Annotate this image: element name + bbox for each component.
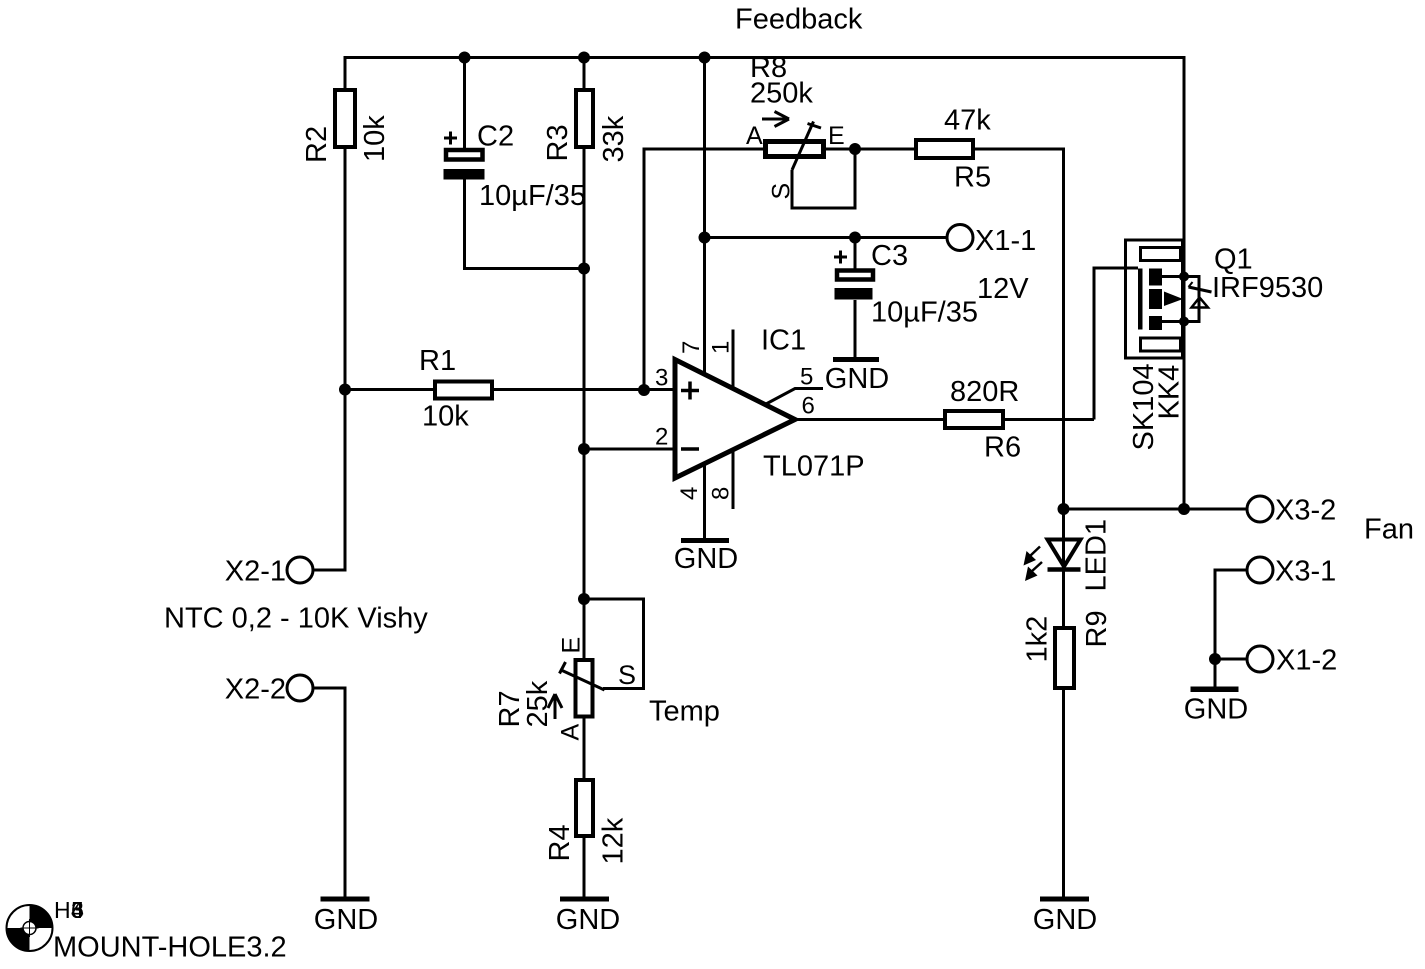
svg-text:R3: R3 — [542, 124, 574, 161]
wire R3 top — [583, 58, 586, 91]
resistor R5 — [916, 140, 973, 158]
connector X1-2 — [1247, 646, 1273, 672]
wire Q1 body diode branch — [1184, 277, 1199, 322]
junction LED rail / fan wire — [1058, 503, 1070, 515]
svg-text:E: E — [828, 122, 845, 150]
junction top rail / C2 — [459, 52, 471, 64]
junction 12V rail left — [699, 232, 711, 244]
junction Q1 drain — [1179, 272, 1189, 282]
potentiometer R8 — [766, 122, 824, 171]
svg-text:X2-1: X2-1 — [225, 556, 286, 588]
svg-text:R9: R9 — [1081, 610, 1113, 647]
svg-text:MOUNT-HOLE3.2: MOUNT-HOLE3.2 — [53, 932, 287, 964]
label H3 H4 H5 H6 overlapped — [54, 897, 84, 923]
ground under C3 — [825, 357, 889, 395]
svg-text:GND: GND — [825, 363, 889, 395]
ground under X2-2 — [314, 897, 378, 937]
wire X3-1 down to GND — [1215, 570, 1247, 687]
svg-text:TL071P: TL071P — [763, 451, 865, 483]
svg-text:2: 2 — [655, 424, 668, 451]
wire Q1 source — [1162, 320, 1184, 323]
connector X1-1 — [947, 225, 973, 251]
wire R9 to GND — [1062, 690, 1065, 897]
svg-text:LED1: LED1 — [1081, 519, 1113, 592]
junction R7 wiper node — [578, 593, 590, 605]
svg-text:X2-2: X2-2 — [225, 674, 286, 706]
junction right rail / fan wire — [1178, 503, 1190, 515]
wire C3 top — [854, 238, 857, 270]
svg-text:X3-2: X3-2 — [1275, 495, 1336, 527]
svg-text:6: 6 — [802, 393, 815, 420]
junction top rail / R3 — [578, 52, 590, 64]
svg-text:33k: 33k — [598, 115, 630, 162]
svg-text:3: 3 — [655, 365, 668, 392]
svg-text:Feedback: Feedback — [735, 4, 863, 36]
ground under R4 — [556, 897, 620, 937]
svg-text:GND: GND — [1184, 694, 1248, 726]
svg-text:C2: C2 — [477, 121, 514, 153]
resistor R4 — [576, 780, 593, 836]
resistor R3 — [576, 90, 593, 147]
svg-text:250k: 250k — [750, 78, 813, 110]
svg-text:R4: R4 — [544, 824, 576, 861]
svg-text:X1-2: X1-2 — [1276, 645, 1337, 677]
svg-text:R1: R1 — [419, 345, 456, 377]
svg-text:S: S — [618, 660, 636, 690]
connector X3-2 — [1247, 496, 1273, 522]
svg-text:6: 6 — [71, 897, 84, 923]
wire C2 bottom to R3 net — [465, 178, 585, 269]
svg-text:R2: R2 — [301, 126, 333, 163]
arrow R7 — [548, 694, 562, 719]
svg-text:R5: R5 — [954, 162, 991, 194]
wire R8 E to R5 — [826, 148, 914, 151]
svg-text:4: 4 — [676, 487, 703, 500]
wire X2-2 to GND — [313, 688, 345, 897]
wire R7 wiper S loop — [584, 599, 644, 689]
wire up to Q1 gate — [1094, 268, 1138, 420]
svg-text:GND: GND — [674, 543, 738, 575]
connector X2-1 — [287, 557, 313, 583]
svg-text:GND: GND — [314, 904, 378, 936]
wire op-amp output to R6 — [795, 418, 945, 421]
resistor R9 — [1055, 628, 1074, 688]
junction top rail / pin7 rail — [699, 52, 711, 64]
svg-text:Temp: Temp — [649, 696, 720, 728]
wire fan rail to X3-2 — [1064, 508, 1248, 511]
resistor R6 — [945, 411, 1003, 428]
capacitor C3 — [834, 251, 873, 300]
svg-text:12k: 12k — [598, 817, 630, 864]
ground under X1-2 node — [1184, 687, 1248, 726]
wire pin3 node up to R8 terminal A — [644, 149, 763, 390]
svg-text:10µF/35: 10µF/35 — [871, 297, 978, 329]
svg-text:GND: GND — [556, 904, 620, 936]
wire R4 to GND — [583, 838, 586, 897]
svg-text:S: S — [768, 183, 796, 200]
connector X3-1 — [1247, 557, 1273, 583]
wire node to X1-2 — [1215, 658, 1247, 661]
svg-text:820R: 820R — [950, 376, 1019, 408]
junction C2 / R3 node — [578, 263, 590, 275]
Q1 body diode — [1189, 282, 1212, 308]
wire R1 to op-amp pin 3 — [494, 388, 675, 391]
svg-text:IRF9530: IRF9530 — [1212, 272, 1323, 304]
resistor R1 — [435, 382, 492, 399]
svg-text:10k: 10k — [422, 401, 469, 433]
svg-text:X3-1: X3-1 — [1275, 556, 1336, 588]
svg-text:H: H — [54, 897, 71, 923]
svg-text:A: A — [746, 122, 763, 150]
LED LED1 — [1024, 540, 1081, 582]
connector X2-2 — [287, 675, 313, 701]
svg-text:IC1: IC1 — [761, 325, 806, 357]
ground under R9 — [1033, 897, 1097, 937]
resistor R2 — [335, 90, 355, 147]
junction pin3 node — [638, 384, 650, 396]
wire Q1 drain — [1162, 275, 1184, 278]
svg-text:47k: 47k — [944, 105, 991, 137]
ground under IC1 pin 4 — [674, 538, 738, 575]
svg-text:GND: GND — [1033, 904, 1097, 936]
arrow R8 — [762, 112, 789, 127]
wire node through LED1 to R9 — [1062, 509, 1065, 628]
wire pin 8 stub — [732, 450, 735, 509]
svg-text:R6: R6 — [984, 432, 1021, 464]
wire C2 top — [463, 58, 466, 153]
potentiometer R7 — [560, 660, 605, 717]
svg-text:1k2: 1k2 — [1022, 616, 1054, 663]
wire pin 7 to 12V rail — [703, 58, 706, 375]
wire R6 to gate corner — [1003, 418, 1094, 421]
capacitor C2 — [444, 132, 485, 180]
svg-text:12V: 12V — [977, 273, 1029, 305]
svg-text:KK4: KK4 — [1154, 365, 1186, 420]
svg-text:Q1: Q1 — [1214, 244, 1253, 276]
wire pin 5 stub — [766, 389, 823, 405]
svg-text:NTC 0,2 - 10K Vishy: NTC 0,2 - 10K Vishy — [164, 603, 428, 635]
wire 12V rail to X1-1 — [705, 236, 948, 239]
svg-text:X1-1: X1-1 — [975, 225, 1036, 257]
wire R3 bottom down to R7 — [583, 149, 586, 659]
wire top supply rail and right rail — [345, 58, 1184, 510]
svg-text:5: 5 — [800, 364, 813, 391]
wire R5 to LED rail — [975, 149, 1064, 509]
junction 12V rail / C3 — [849, 232, 861, 244]
junction pin2 node — [578, 443, 590, 455]
wire pin 4 to GND — [703, 464, 706, 539]
transistor Q1 MOSFET symbol — [1138, 269, 1183, 331]
svg-text:8: 8 — [708, 487, 735, 500]
transistor Q1 heatsink SK104 — [1126, 240, 1183, 358]
svg-text:E: E — [558, 637, 586, 654]
wire R7 to R4 — [583, 719, 586, 779]
wire C3 bottom to GND — [854, 300, 857, 357]
svg-text:C3: C3 — [871, 240, 908, 272]
svg-text:1: 1 — [708, 341, 735, 354]
wire R2 bottom to X2-1 — [313, 149, 345, 571]
wire pin 2 — [584, 448, 675, 451]
op-amp IC1 — [675, 360, 795, 479]
junction R8 E / wiper — [849, 143, 861, 155]
junction X1-2 / GND — [1209, 653, 1221, 665]
svg-text:A: A — [557, 724, 585, 741]
junction Q1 source — [1179, 317, 1189, 327]
svg-text:10k: 10k — [359, 115, 391, 162]
svg-text:7: 7 — [678, 341, 705, 354]
wire pin 1 stub — [732, 330, 735, 389]
wire R8 wiper S loop — [792, 149, 855, 208]
svg-text:Fan: Fan — [1364, 514, 1414, 546]
wire node to R1 — [345, 388, 433, 391]
mount hole H symbol — [7, 905, 53, 951]
svg-text:10µF/35: 10µF/35 — [479, 180, 586, 212]
junction R1 left node — [339, 384, 351, 396]
